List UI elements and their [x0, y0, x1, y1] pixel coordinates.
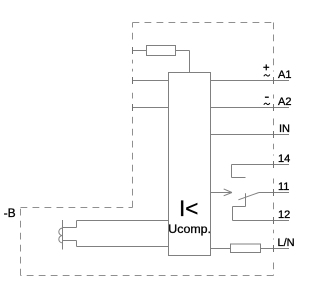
svg-text:14: 14: [278, 153, 290, 165]
terminal tick A1: [273, 77, 275, 84]
relay contact blade K1: [238, 193, 259, 200]
AC ~ symbol (A2): [264, 103, 270, 105]
terminal tick (A2 left): [132, 104, 134, 111]
wire: terminal A2: [211, 107, 290, 109]
actuation arrow from block: [211, 189, 232, 196]
terminal tick (R1 wire at boundary): [132, 47, 134, 54]
wire: terminal 12: [233, 220, 290, 222]
svg-text:Ucomp.: Ucomp.: [168, 222, 211, 236]
wire: terminal 14: [232, 164, 290, 166]
wire: R2 to terminal L/N: [261, 248, 290, 250]
svg-text:L/N: L/N: [278, 237, 295, 249]
dashed device boundary (L-shaped outline): [21, 23, 274, 276]
wire: R1 to block top: [176, 51, 190, 73]
svg-text:-B: -B: [4, 206, 16, 220]
sensor window outline (top): [63, 221, 77, 228]
svg-text:IN: IN: [279, 123, 290, 135]
terminal tick (A1 left): [132, 77, 134, 84]
wire: sensor bottom to block: [77, 246, 169, 248]
current sensor -B (coil arcs): [59, 228, 63, 243]
current sensor -B (primary conductor): [62, 220, 64, 250]
resistor R2 (L/N dropper): [231, 244, 261, 253]
terminal tick A2: [273, 104, 275, 111]
polarity - symbol (A2): [265, 96, 269, 98]
wire: border to R1: [133, 50, 147, 52]
wire: terminal IN: [211, 134, 290, 136]
terminal tick L/N: [273, 245, 275, 252]
terminal tick 12: [273, 217, 275, 224]
NO contact 14 (hook): [232, 165, 246, 178]
svg-text:11: 11: [278, 181, 289, 193]
block U1 (measuring relay body): [169, 73, 211, 256]
sensor window outline (bottom): [63, 241, 77, 247]
svg-text:12: 12: [278, 209, 290, 221]
svg-text:A2: A2: [278, 96, 291, 108]
svg-text:I<: I<: [179, 196, 198, 221]
polarity + symbol (A1): [263, 64, 269, 70]
wire: A2 left segment: [133, 107, 169, 109]
resistor R1 (top supply resistor): [147, 46, 176, 56]
wire: block to R2: [211, 248, 231, 250]
wire: terminal 11: [259, 192, 289, 194]
wire: sensor top to block: [77, 220, 169, 222]
wire: A1 left segment: [133, 80, 169, 82]
terminal tick IN: [273, 131, 275, 138]
wire: terminal A1: [211, 80, 290, 82]
AC ~ symbol (A1): [264, 75, 270, 77]
svg-text:A1: A1: [278, 69, 291, 81]
NC contact 12 (lead): [233, 193, 246, 220]
gap clearing around terminal ticks on dashed border: [131, 42, 274, 258]
terminal tick 14: [273, 161, 275, 168]
terminal tick 11: [273, 189, 275, 196]
